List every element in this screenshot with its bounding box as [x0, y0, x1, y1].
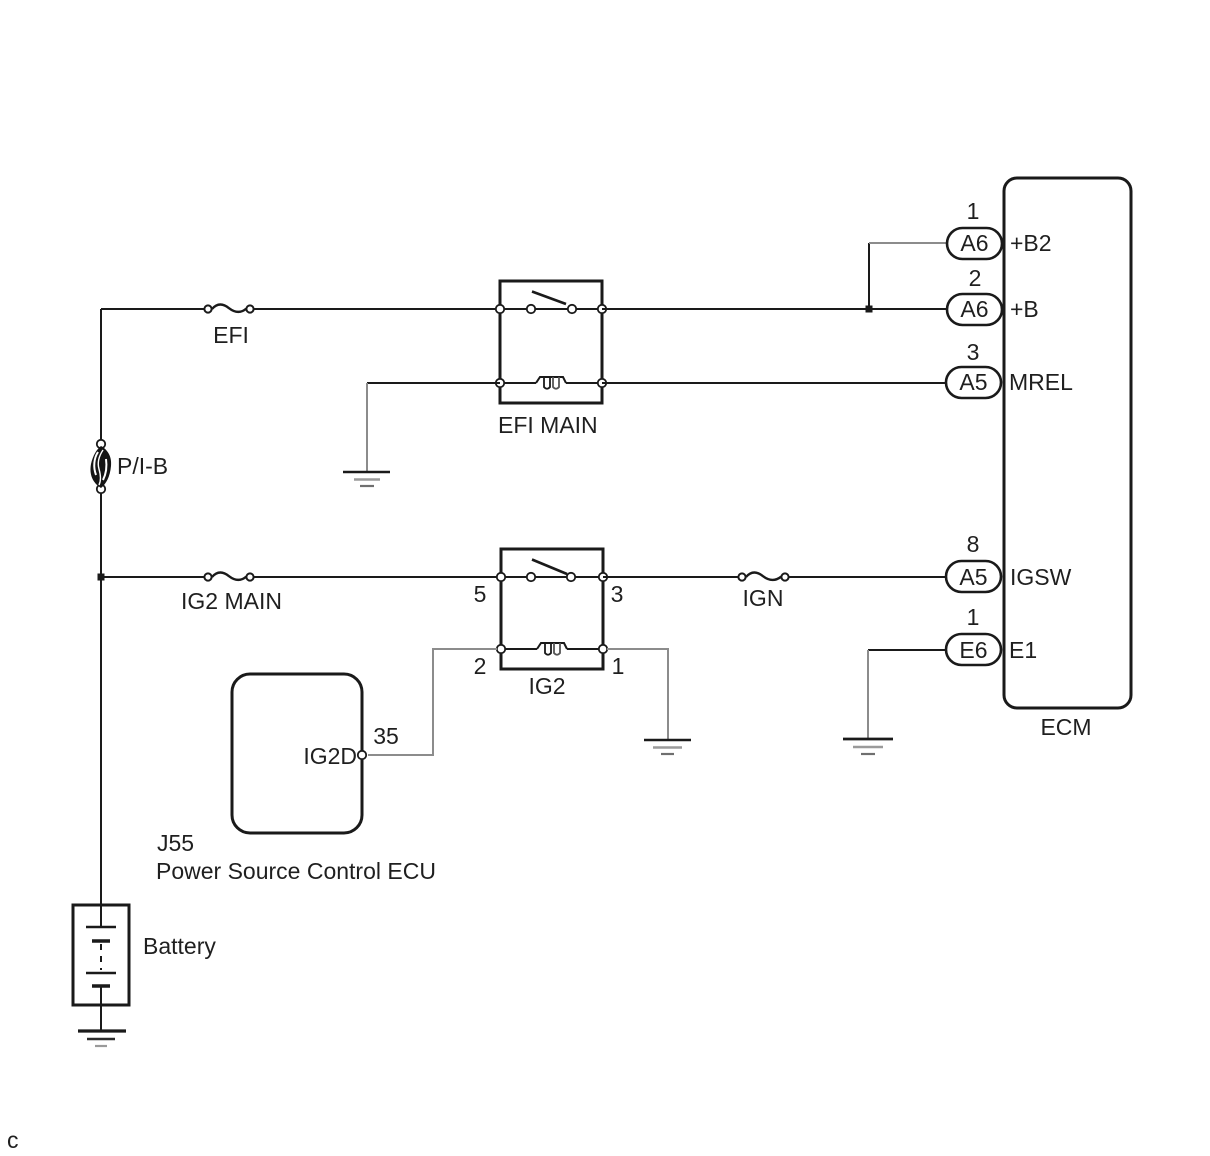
wire: EFI fuse to relay EFI MAIN pin — [254, 308, 497, 310]
battery dashed link — [100, 944, 102, 970]
wire: ground drop x=868 (gray) — [867, 650, 869, 738]
relay EFI MAIN coil — [536, 377, 566, 389]
pin oval A5 IGSW — [946, 561, 1001, 592]
svg-text:P/I-B: P/I-B — [117, 453, 168, 479]
connector P/I-B twisted symbol — [90, 446, 111, 488]
wire: relay IG2 coil right to ground (gray route) — [607, 649, 668, 739]
ground (IG2 relay) — [644, 740, 691, 754]
pin oval A6 +B — [947, 294, 1002, 325]
wire: fuse to relay IG2 — [254, 576, 498, 578]
relay EFI MAIN pins (switch row) — [496, 305, 606, 313]
wire: E6 to ground — [868, 649, 946, 651]
wire: IGN fuse to ECM IGSW — [789, 576, 946, 578]
svg-text:2: 2 — [969, 265, 982, 291]
fuse IG2 MAIN — [204, 573, 253, 581]
wire: row2 y=577 bus to IG2 MAIN fuse — [101, 576, 204, 578]
wire: relay EFI MAIN coil row to MREL — [602, 382, 946, 384]
wire: ground drop x=367 — [366, 383, 368, 471]
svg-text:1: 1 — [967, 198, 980, 224]
fuse EFI — [204, 305, 253, 313]
svg-text:IG2: IG2 — [528, 673, 565, 699]
svg-text:c: c — [7, 1127, 19, 1153]
svg-text:3: 3 — [967, 339, 980, 365]
relay IG2 switch blade — [532, 560, 567, 575]
pin oval A6 +B2 — [947, 228, 1002, 259]
junction node at (869,309) — [866, 306, 873, 313]
wire: relay IG2 coil left to J55 IG2D (gray route) — [368, 649, 497, 755]
battery plate short 1 — [92, 939, 110, 942]
relay IG2 coil — [537, 643, 567, 655]
pin oval E6 E1 — [946, 634, 1001, 665]
svg-text:IGSW: IGSW — [1010, 564, 1072, 590]
svg-text:8: 8 — [967, 531, 980, 557]
svg-text:1: 1 — [967, 604, 980, 630]
ground (battery) — [78, 1031, 126, 1046]
svg-text:35: 35 — [373, 723, 399, 749]
ground (EFI MAIN relay) — [343, 472, 390, 486]
svg-text:IG2 MAIN: IG2 MAIN — [181, 588, 282, 614]
connector P/I-B circles — [97, 440, 105, 493]
svg-text:ECM: ECM — [1040, 714, 1091, 740]
battery plate short 2 — [92, 984, 110, 987]
svg-text:+B2: +B2 — [1010, 230, 1052, 256]
relay IG2 pins (switch row) — [497, 573, 607, 581]
ECM box — [1004, 178, 1131, 708]
wire: branch up to +B2 — [868, 243, 870, 309]
svg-text:A6: A6 — [960, 296, 988, 322]
svg-text:+B: +B — [1010, 296, 1039, 322]
svg-text:IG2D: IG2D — [303, 743, 357, 769]
relay IG2 box — [501, 549, 603, 669]
wire: +B2 horizontal (gray) — [869, 242, 947, 244]
wire: relay IG2 switch out to IGN fuse — [603, 576, 738, 578]
svg-text:J55: J55 — [157, 830, 194, 856]
svg-text:E1: E1 — [1009, 637, 1037, 663]
svg-text:MREL: MREL — [1009, 369, 1073, 395]
relay IG2 coil pins — [497, 645, 607, 653]
ground (ECM E1) — [843, 739, 893, 754]
relay IG2 switch row wire — [501, 576, 603, 578]
relay EFI MAIN switch row wire — [500, 308, 602, 310]
svg-text:3: 3 — [611, 581, 624, 607]
wire: battery positive bus, vertical left x=101 — [100, 309, 102, 905]
pin oval A5 MREL — [946, 367, 1001, 398]
fuse IGN — [738, 573, 788, 581]
relay EFI MAIN coil row wire — [500, 382, 602, 384]
svg-text:2: 2 — [474, 653, 487, 679]
pin IG2D circle — [358, 751, 366, 759]
svg-text:IGN: IGN — [743, 585, 784, 611]
junction node at (101,577) — [98, 574, 105, 581]
battery plate long 2 — [86, 972, 116, 974]
wire: top row y=309 from bus to EFI fuse — [101, 308, 204, 310]
relay IG2 coil row wire — [501, 648, 603, 650]
battery internal: top lead — [100, 905, 102, 927]
svg-text:1: 1 — [612, 653, 625, 679]
battery bottom lead to ground — [100, 986, 102, 1031]
svg-text:Battery: Battery — [143, 933, 216, 959]
svg-text:E6: E6 — [959, 637, 987, 663]
relay EFI MAIN switch blade — [532, 292, 566, 305]
wire: relay EFI MAIN switch out to ECM +B, y=309 — [602, 308, 947, 310]
J55 Power Source Control ECU box — [232, 674, 362, 833]
svg-text:5: 5 — [474, 581, 487, 607]
relay EFI MAIN coil pins — [496, 379, 606, 387]
svg-text:EFI MAIN: EFI MAIN — [498, 412, 598, 438]
svg-text:EFI: EFI — [213, 322, 249, 348]
svg-text:Power Source Control ECU: Power Source Control ECU — [156, 858, 436, 884]
wire: relay EFI MAIN coil to ground, left — [367, 382, 500, 384]
svg-text:A6: A6 — [960, 230, 988, 256]
battery plate long 1 — [86, 926, 116, 928]
svg-text:A5: A5 — [959, 369, 987, 395]
svg-text:A5: A5 — [959, 564, 987, 590]
relay EFI MAIN box — [500, 281, 602, 403]
battery box — [73, 905, 129, 1005]
